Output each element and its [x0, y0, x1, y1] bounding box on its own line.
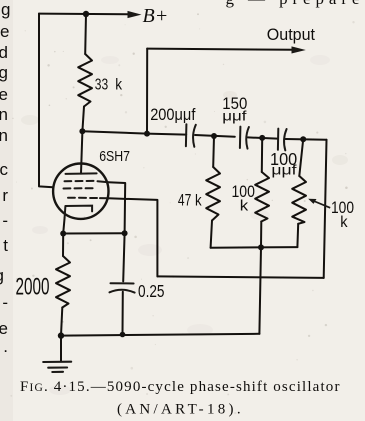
wire 100k middle top lead — [261, 138, 263, 172]
wire output tap vertical — [146, 49, 148, 134]
wire output horizontal — [147, 49, 293, 50]
svg-text:6SH7: 6SH7 — [99, 148, 130, 165]
wire cathode node horizontal — [63, 232, 124, 234]
tube grid G2 dashes — [64, 187, 93, 189]
svg-text:.: . — [3, 337, 8, 356]
svg-text:t: t — [3, 236, 8, 255]
svg-text:g: g — [0, 266, 4, 285]
svg-text:47: 47 — [178, 190, 191, 209]
capacitor C 100uuf — [278, 129, 287, 151]
svg-text:Output: Output — [267, 25, 315, 44]
wire B+ top — [39, 13, 129, 16]
node dot plate junction — [79, 128, 85, 134]
svg-text:n: n — [0, 126, 8, 145]
arrowhead B+ — [128, 11, 142, 18]
wire 2000 to ground node — [61, 308, 62, 336]
wire grid return horizontal — [157, 276, 323, 278]
svg-text:g — prepared: g — prepared — [226, 0, 365, 8]
tube cathode — [65, 206, 93, 218]
wire 200uuf to 47k node — [195, 135, 235, 137]
capacitor C 150uuf — [240, 127, 249, 149]
wire plate lead from B+ dot to 33k — [84, 14, 87, 54]
node dot 100k right top — [300, 136, 306, 142]
wire 0.25 cap top lead — [123, 233, 124, 281]
wire resistor common rail — [211, 246, 298, 249]
svg-text:n: n — [0, 105, 8, 124]
node dot B+ junction — [83, 11, 89, 17]
svg-text:FIG. 4·15.—5090-cycle phase-sh: FIG. 4·15.—5090-cycle phase-shift oscill… — [20, 379, 341, 395]
wire 100k middle bottom lead — [260, 222, 262, 248]
node dot ground left — [58, 332, 64, 338]
wire phase-shift top rail: plate node to 200uuf — [82, 131, 186, 134]
ground symbol — [43, 362, 71, 372]
tube V1 6SH7 envelope — [53, 164, 108, 219]
tube grid G1 dashes — [68, 197, 108, 200]
svg-text:-: - — [2, 293, 8, 312]
wire 100k right top lead — [299, 139, 303, 176]
wire grid lead from tube — [108, 198, 157, 276]
svg-text:e: e — [0, 85, 8, 104]
wire bottom ground rail — [61, 334, 259, 336]
svg-text:k: k — [340, 214, 348, 231]
node dot cathode right — [122, 230, 128, 236]
capacitor C 200uuf — [186, 124, 196, 147]
svg-text:g: g — [0, 63, 8, 82]
svg-text:-: - — [2, 211, 8, 230]
wire 47k bottom lead — [211, 221, 212, 248]
resistor R 100k right zigzag — [292, 176, 306, 224]
node dot output tap — [144, 131, 150, 137]
svg-text:0.25: 0.25 — [138, 281, 165, 301]
svg-text:33: 33 — [95, 77, 108, 94]
svg-text:r: r — [2, 186, 8, 205]
resistor R 100k middle zigzag — [255, 172, 269, 222]
wire right feedback rail down — [324, 140, 327, 278]
svg-text:k: k — [115, 77, 122, 94]
wire right ground riser — [259, 247, 261, 333]
wire plate node into tube plate — [81, 131, 82, 173]
wire 100uuf to grid-return node — [286, 138, 327, 141]
wire 150uuf to 100k node — [248, 137, 277, 138]
svg-text:B+: B+ — [143, 5, 169, 27]
node dot 100k mid top — [259, 135, 265, 141]
wire cathode lead from tube — [63, 218, 64, 234]
svg-text:ng: ng — [0, 0, 11, 19]
node dot resistor rail — [258, 244, 264, 250]
arrowhead Output — [292, 46, 306, 53]
svg-text:k: k — [195, 192, 202, 209]
svg-text:(AN/ART-18).: (AN/ART-18). — [117, 402, 244, 418]
svg-text:200μμf: 200μμf — [150, 105, 195, 124]
wire cathode node to 2000 resistor — [62, 234, 64, 257]
left margin column fragments — [0, 0, 11, 356]
wire suppressor lead from tube to cathode node — [108, 182, 125, 233]
node dot 47k top — [211, 133, 217, 139]
resistor R 33k zigzag — [78, 54, 92, 107]
node dot ground mid — [120, 332, 126, 338]
wire 100k right bottom lead — [296, 224, 299, 247]
svg-text:μμf: μμf — [222, 107, 246, 123]
svg-text:e: e — [0, 319, 8, 338]
tube grid G3 dashes — [65, 181, 109, 182]
resistor R 2000 zigzag — [56, 256, 70, 308]
svg-text:c: c — [0, 160, 9, 179]
wire 33k to plate node — [82, 107, 84, 132]
node dot cathode left — [60, 231, 66, 237]
arrow pointing to right 100k — [308, 199, 330, 208]
resistor R 47k zigzag — [206, 167, 220, 221]
svg-text:se: se — [0, 22, 10, 41]
svg-text:2000: 2000 — [16, 274, 50, 301]
capacitor C 0.25 — [110, 283, 135, 292]
wire 0.25 cap bottom lead — [122, 292, 124, 335]
svg-text:k: k — [240, 198, 249, 215]
wire 47k top lead — [212, 136, 215, 167]
svg-text:μμf: μμf — [271, 162, 296, 178]
svg-text:d: d — [0, 43, 8, 62]
tube plate bar — [66, 172, 97, 175]
wire left screen-grid rail — [39, 14, 53, 188]
ground stem — [60, 336, 62, 361]
